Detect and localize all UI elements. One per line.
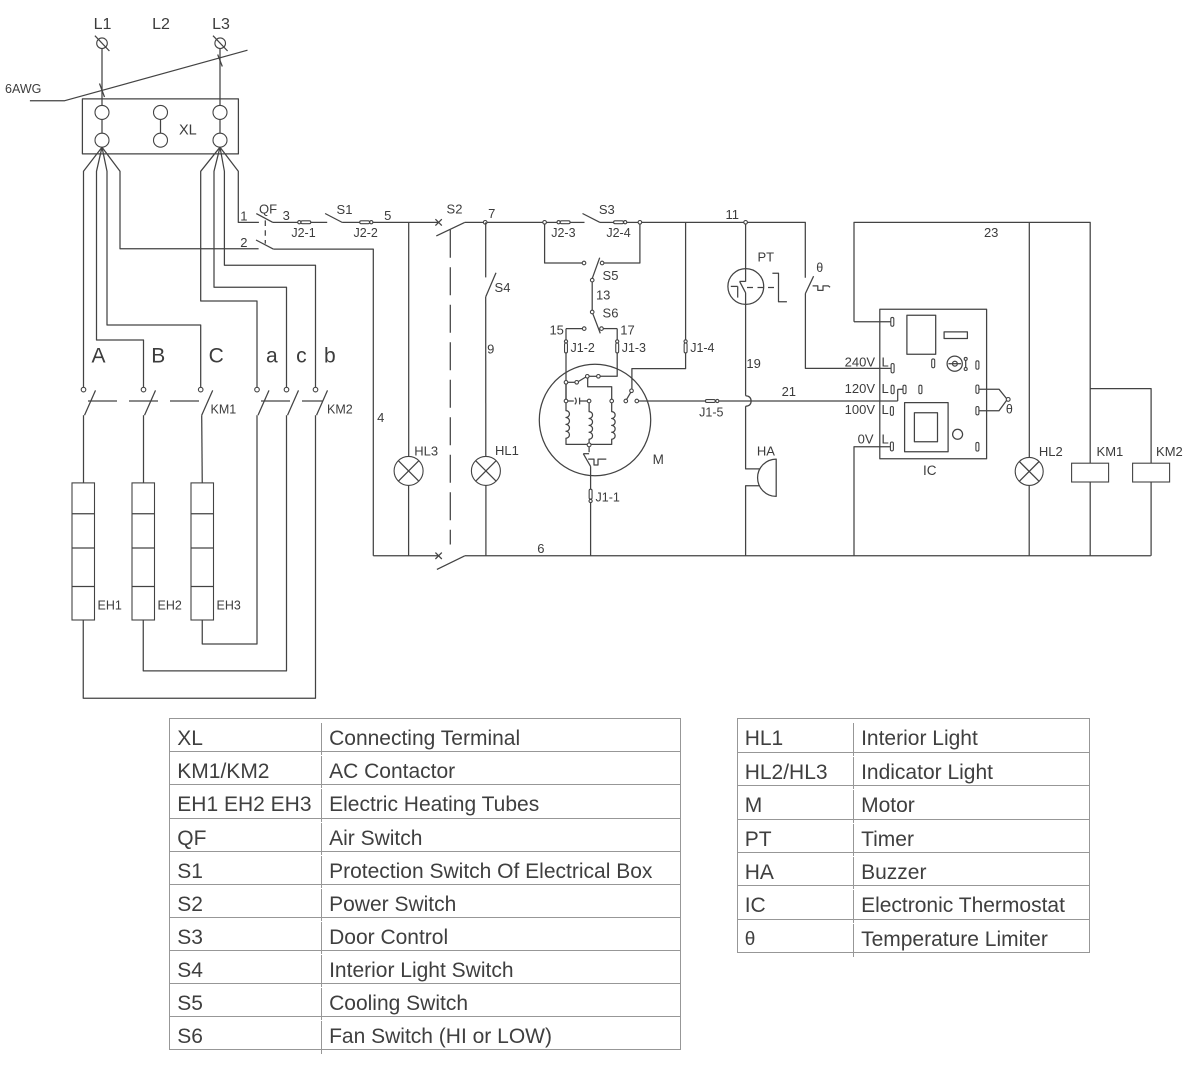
label 240V xyxy=(845,355,876,370)
svg-text:15: 15 xyxy=(549,322,563,337)
centrifugal switch left contact xyxy=(624,399,628,403)
phase label C xyxy=(209,345,224,368)
label J2-1 xyxy=(291,226,315,240)
wire HL3 to bus xyxy=(408,485,410,555)
svg-text:S4: S4 xyxy=(495,280,511,295)
phase label b xyxy=(324,345,336,368)
wire 21 xyxy=(719,400,898,402)
svg-text:23: 23 xyxy=(984,225,998,240)
buzzer HA xyxy=(758,459,777,496)
svg-text:S1: S1 xyxy=(337,202,353,217)
wire HL2 to bus xyxy=(1028,485,1030,555)
IC microcontroller square xyxy=(905,403,949,452)
terminal L3 xyxy=(213,36,228,51)
label KM2 coil xyxy=(1156,444,1183,459)
svg-text:J1-2: J1-2 xyxy=(571,341,595,355)
wire 5 xyxy=(373,221,439,223)
node after J2-4 xyxy=(638,221,642,225)
label 120V xyxy=(845,381,876,396)
label IC xyxy=(923,463,937,478)
contactor KM2 pole c xyxy=(284,387,298,415)
label J1-4 xyxy=(690,341,714,355)
label S6 xyxy=(603,305,619,320)
label 100V xyxy=(845,402,876,417)
motor M body xyxy=(539,364,650,475)
svg-text:KM1: KM1 xyxy=(211,403,237,417)
svg-text:KM2: KM2 xyxy=(1156,444,1183,459)
contactor coil KM1 xyxy=(1072,463,1109,482)
wire B to EH2 xyxy=(143,415,145,483)
IC right pad 3 xyxy=(976,407,979,415)
svg-text:c: c xyxy=(296,345,307,368)
svg-text:J1-5: J1-5 xyxy=(699,406,723,420)
wire buzzer to bus xyxy=(746,486,760,556)
air switch QF pole 2 xyxy=(256,240,273,249)
wire 3 xyxy=(273,221,298,223)
switch S2 cross mark xyxy=(435,219,441,225)
thermostat sensor output xyxy=(979,389,1010,411)
label 4 xyxy=(377,410,384,425)
wire PT to buzzer xyxy=(746,406,760,469)
svg-text:θ: θ xyxy=(816,261,823,275)
label KM1 xyxy=(211,403,237,417)
label EH3 xyxy=(217,599,241,613)
wire 19 xyxy=(745,293,747,396)
phase label B xyxy=(151,345,165,368)
wire J1-4 branch xyxy=(685,222,687,339)
wire 15 down to J1-2 xyxy=(565,329,567,340)
label KM1 coil xyxy=(1097,444,1124,459)
node at J2-3 xyxy=(543,221,547,225)
centrifugal switch right contact xyxy=(635,399,639,403)
label J1-2 xyxy=(571,341,595,355)
label J1-5 xyxy=(699,406,723,420)
IC pad 240V xyxy=(891,364,894,373)
wire J1-3 into motor xyxy=(600,353,617,376)
svg-text:13: 13 xyxy=(596,287,610,302)
capacitor left node xyxy=(564,399,568,403)
svg-text:KM2: KM2 xyxy=(327,403,353,417)
S5 bypass left wire xyxy=(545,224,583,263)
switch S2 linkage xyxy=(449,230,451,545)
label 17 xyxy=(620,322,634,337)
wire 23 to IC pin xyxy=(854,321,892,323)
svg-text:L: L xyxy=(882,355,889,370)
switch S2 upper blade xyxy=(436,222,464,236)
wire junction to protector xyxy=(588,447,590,452)
wire HL2 branch xyxy=(1028,222,1030,457)
wire S1 to J2-2 xyxy=(342,221,359,223)
svg-text:L: L xyxy=(882,432,889,447)
svg-text:HL1: HL1 xyxy=(495,443,519,458)
wire node7 to J2-3 xyxy=(487,221,543,223)
svg-text:L: L xyxy=(882,402,889,417)
wire S2 to node 7 xyxy=(465,221,484,223)
label 7 xyxy=(488,206,495,221)
svg-text:HL2: HL2 xyxy=(1039,444,1063,459)
connector J2-4 xyxy=(614,221,627,224)
wire KM2 to bus xyxy=(1150,482,1152,556)
label HL1 xyxy=(495,443,519,458)
IC pad mid xyxy=(919,385,922,394)
wire L1 fanout to C xyxy=(102,147,201,387)
label KM2 xyxy=(327,403,353,417)
indicator lamp HL2 xyxy=(1015,457,1043,485)
label HA xyxy=(757,443,775,458)
terminal L1 label xyxy=(94,16,112,33)
svg-text:7: 7 xyxy=(488,206,495,221)
switch S3 xyxy=(583,214,601,223)
contactor KM2 pole a xyxy=(255,387,269,415)
wire protector to J1-1 xyxy=(590,466,592,489)
connector J2-2 xyxy=(360,221,373,224)
svg-text:S5: S5 xyxy=(603,268,619,283)
switch S4 xyxy=(486,273,496,297)
label sensor theta xyxy=(1006,403,1013,417)
wire EH3 to a xyxy=(202,415,257,644)
svg-text:QF: QF xyxy=(259,201,277,216)
IC circle component xyxy=(953,429,963,439)
wire 0V to bus xyxy=(854,447,890,556)
S6 right contact xyxy=(600,327,604,331)
winding 1 xyxy=(566,403,587,445)
wire L3 fanout to a xyxy=(201,147,257,387)
contactor KM1 pole A xyxy=(81,387,95,415)
label S1 xyxy=(337,202,353,217)
label 15 xyxy=(549,322,563,337)
label S4 xyxy=(495,280,511,295)
S5 lower contact xyxy=(590,278,594,282)
heating tube EH2 xyxy=(132,483,155,620)
capacitor right node xyxy=(587,399,591,403)
pin letter L 120V xyxy=(882,381,889,396)
heating tube EH1 xyxy=(72,483,95,620)
terminal block XL xyxy=(82,99,238,154)
S6 left contact xyxy=(582,327,586,331)
label EH1 xyxy=(98,599,122,613)
svg-text:6: 6 xyxy=(537,541,544,556)
contactor KM1 linkage xyxy=(88,400,208,402)
connector J1-1 xyxy=(589,489,592,502)
svg-text:EH1: EH1 xyxy=(98,599,122,613)
heating tube EH3 xyxy=(191,483,214,620)
S5 bypass right wire xyxy=(604,224,640,263)
motor speed selector right contact xyxy=(589,375,600,379)
contactor coil KM2 xyxy=(1133,463,1170,482)
wire L1 fanout to A xyxy=(84,147,103,387)
switch S1 xyxy=(325,214,342,223)
wire J1-4 to centrifugal switch xyxy=(632,353,686,389)
winding 2 xyxy=(589,403,592,443)
contactor KM2 linkage xyxy=(261,400,323,402)
connector J1-5 xyxy=(705,399,719,402)
motor speed selector center contact xyxy=(586,375,590,379)
node 7 xyxy=(483,221,487,225)
label S3 xyxy=(599,202,615,217)
connector J1-4 xyxy=(684,340,687,353)
switch S6 contact xyxy=(590,310,594,314)
wire limiter to 240V xyxy=(805,294,892,369)
thermal protector element xyxy=(588,459,606,465)
wire S4 branch upper xyxy=(485,222,487,277)
wire selector to main winding xyxy=(588,378,612,399)
svg-text:J2-1: J2-1 xyxy=(291,226,315,240)
6AWG leader line xyxy=(30,50,248,100)
svg-text:S6: S6 xyxy=(603,305,619,320)
IC right pad 1 xyxy=(976,361,979,369)
wire J1-1 to bus xyxy=(590,503,592,556)
interior lamp HL1 xyxy=(471,456,500,485)
label QF xyxy=(259,201,277,216)
connector J2-3 xyxy=(546,221,570,224)
wire EH2 to c xyxy=(143,415,286,671)
svg-text:17: 17 xyxy=(620,322,634,337)
svg-text:θ: θ xyxy=(1006,403,1013,417)
svg-text:M: M xyxy=(653,452,664,467)
label M xyxy=(653,452,664,467)
svg-text:19: 19 xyxy=(746,356,760,371)
wire node 11 down to PT xyxy=(745,224,747,282)
IC right pad 2 xyxy=(976,385,979,393)
connector J1-2 xyxy=(564,340,567,353)
label PT xyxy=(757,250,774,265)
capacitor C xyxy=(568,398,588,405)
temperature limiter switch xyxy=(805,276,830,293)
motor speed selector blade xyxy=(578,377,586,382)
pin letter L 240V xyxy=(882,355,889,370)
svg-text:J2-3: J2-3 xyxy=(551,226,575,240)
svg-text:S3: S3 xyxy=(599,202,615,217)
label 2 xyxy=(240,235,247,250)
label 0V xyxy=(858,432,874,447)
wire L3 fanout to c xyxy=(214,147,287,387)
svg-text:J2-2: J2-2 xyxy=(354,226,378,240)
svg-text:L2: L2 xyxy=(152,16,170,33)
switch S2 lower cross mark xyxy=(435,553,441,559)
wire HL1 to bus xyxy=(485,485,487,555)
wire 13 xyxy=(591,282,593,310)
IC pad 0V xyxy=(890,442,893,451)
svg-text:120V: 120V xyxy=(845,381,876,396)
label HL3 xyxy=(414,443,438,458)
svg-text:11: 11 xyxy=(725,207,739,222)
wire L1 fanout to QF pole 2 xyxy=(102,147,259,249)
wire 23 xyxy=(854,222,1090,463)
IC pin pad top-left xyxy=(891,317,894,326)
svg-text:J2-4: J2-4 xyxy=(606,226,630,240)
svg-text:PT: PT xyxy=(757,250,774,265)
wire KM1 to bus xyxy=(1089,482,1091,556)
bottom bus wire 6 left xyxy=(373,555,438,557)
switch S2 lower blade xyxy=(437,556,465,570)
cable tick on L1 wire xyxy=(100,84,105,98)
wire HL3 branch xyxy=(408,222,410,456)
svg-text:21: 21 xyxy=(782,384,796,399)
phase label a xyxy=(266,345,278,368)
svg-text:C: C xyxy=(209,345,224,368)
wire L3 fanout to b xyxy=(220,147,316,387)
wire J1-2 into motor xyxy=(565,353,567,399)
wire L1 fanout to B xyxy=(97,147,144,387)
wire L3 fanout to QF pole 1 xyxy=(220,147,259,222)
svg-text:240V: 240V xyxy=(845,355,876,370)
svg-text:HL3: HL3 xyxy=(414,443,438,458)
legend table left xyxy=(169,718,681,1050)
svg-text:6AWG: 6AWG xyxy=(5,82,41,96)
svg-text:A: A xyxy=(91,345,105,368)
wire 9 xyxy=(485,297,487,457)
connector J1-3 xyxy=(616,340,619,353)
IC pad 100V xyxy=(890,407,893,416)
IC pad 120V xyxy=(891,385,894,394)
svg-text:J1-4: J1-4 xyxy=(690,341,714,355)
label HL2 xyxy=(1039,444,1063,459)
svg-text:L3: L3 xyxy=(212,16,230,33)
wire A to EH1 xyxy=(83,415,85,483)
label 1 xyxy=(240,208,247,223)
label 9 xyxy=(487,342,494,357)
svg-text:5: 5 xyxy=(384,208,391,223)
wire 17 xyxy=(603,328,617,330)
label EH2 xyxy=(158,599,182,613)
svg-text:4: 4 xyxy=(377,410,384,425)
wire L3 to XL xyxy=(219,49,221,106)
label 6 xyxy=(537,541,544,556)
thermostat IC box xyxy=(880,309,987,459)
wire 15 xyxy=(566,328,582,330)
wire S3 to J2-4 xyxy=(600,221,614,223)
svg-text:J1-1: J1-1 xyxy=(596,491,620,505)
thermal protector blade xyxy=(583,454,590,467)
wire left rail in motor xyxy=(565,384,567,399)
wire hop over wire 21 xyxy=(746,396,752,407)
svg-text:b: b xyxy=(324,345,336,368)
label 11 xyxy=(725,207,739,222)
centrifugal switch top contact xyxy=(630,389,634,393)
contactor KM1 pole C xyxy=(198,387,212,415)
legend table right xyxy=(737,718,1090,952)
svg-text:J1-3: J1-3 xyxy=(622,341,646,355)
terminal L2 label xyxy=(152,16,170,33)
svg-text:B: B xyxy=(151,345,165,368)
timer PT xyxy=(728,269,787,305)
IC trimmer xyxy=(947,356,967,371)
phase label c xyxy=(296,345,307,368)
label J1-1 xyxy=(596,491,620,505)
label 5 xyxy=(384,208,391,223)
wire node 11 to limiter xyxy=(747,222,805,277)
switch S6 blade xyxy=(593,314,601,334)
wire motor to J1-5 xyxy=(639,400,706,402)
label limiter theta xyxy=(816,261,823,275)
label J2-3 xyxy=(551,226,575,240)
IC relay block xyxy=(907,315,936,354)
wire J2-1 to S1 xyxy=(311,221,327,223)
svg-text:L1: L1 xyxy=(94,16,112,33)
wire C to EH3 xyxy=(201,415,204,483)
svg-text:a: a xyxy=(266,345,278,368)
svg-text:2: 2 xyxy=(240,235,247,250)
label 21 xyxy=(782,384,796,399)
air switch QF linkage xyxy=(264,220,266,243)
contactor KM2 pole b xyxy=(313,387,327,415)
label 3 xyxy=(283,208,290,223)
label 23 xyxy=(984,225,998,240)
pin letter L 0V xyxy=(882,432,889,447)
IC right pad 4 xyxy=(976,442,979,451)
wire node to node 11 xyxy=(642,221,744,223)
label S2 xyxy=(447,201,463,216)
winding junction node xyxy=(587,443,591,447)
pin letter L 100V xyxy=(882,402,889,417)
svg-text:KM1: KM1 xyxy=(1097,444,1124,459)
svg-text:0V: 0V xyxy=(858,432,874,447)
wire J2-4 to node xyxy=(627,221,638,223)
wire EH1 to b xyxy=(83,415,315,698)
centrifugal switch blade xyxy=(627,392,631,399)
contactor KM1 pole B xyxy=(141,387,155,415)
label 19 xyxy=(746,356,760,371)
svg-text:EH2: EH2 xyxy=(158,599,182,613)
switch S5 blade xyxy=(592,258,599,279)
svg-text:1: 1 xyxy=(240,208,247,223)
label S5 xyxy=(603,268,619,283)
terminal L1 xyxy=(95,36,110,51)
wire 17 down to J1-3 xyxy=(616,329,618,340)
IC resistor block xyxy=(944,332,967,339)
IC pad 21-in xyxy=(898,385,906,401)
label J2-4 xyxy=(606,226,630,240)
IC pad mid-top xyxy=(932,359,935,368)
switch S5 contacts xyxy=(582,261,604,265)
indicator lamp HL3 xyxy=(394,456,423,485)
phase label A xyxy=(91,345,105,368)
svg-text:HA: HA xyxy=(757,443,775,458)
winding 3 xyxy=(591,399,615,444)
svg-text:L: L xyxy=(882,381,889,396)
svg-text:100V: 100V xyxy=(845,402,876,417)
label XL xyxy=(179,123,197,139)
node 11 xyxy=(744,221,748,225)
cable size label 6AWG xyxy=(5,82,41,96)
label 13 xyxy=(596,287,610,302)
svg-text:3: 3 xyxy=(283,208,290,223)
svg-text:EH3: EH3 xyxy=(217,599,241,613)
wire L1 to XL xyxy=(101,49,103,106)
bottom bus wire 6 xyxy=(465,555,1151,557)
wire KM2 branch xyxy=(1090,389,1151,464)
wire 2 to QF out and down (wire 4) xyxy=(273,249,373,556)
svg-text:IC: IC xyxy=(923,463,937,478)
svg-text:S2: S2 xyxy=(447,201,463,216)
motor speed selector second contact xyxy=(568,381,579,385)
svg-text:9: 9 xyxy=(487,342,494,357)
motor speed selector left contact xyxy=(564,381,568,385)
cable tick on L3 wire xyxy=(218,55,223,67)
svg-text:XL: XL xyxy=(179,123,197,139)
label J2-2 xyxy=(354,226,378,240)
air switch QF pole 1 xyxy=(256,214,273,223)
connector J2-1 xyxy=(298,221,311,224)
label J1-3 xyxy=(622,341,646,355)
terminal L3 label xyxy=(212,16,230,33)
wire J2-3 to S3 xyxy=(570,221,584,223)
